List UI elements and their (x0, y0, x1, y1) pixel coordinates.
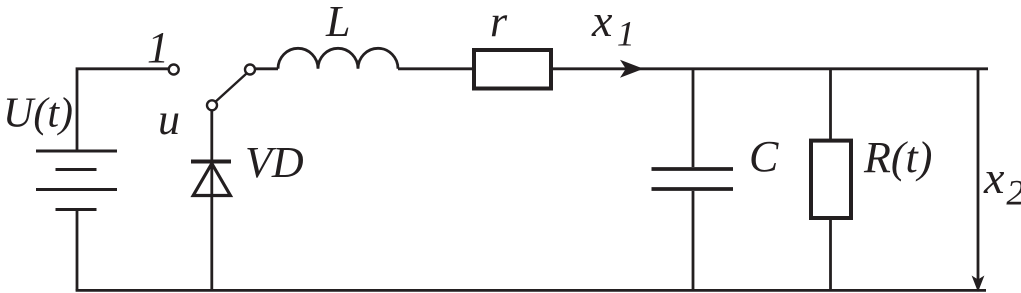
svg-text:r: r (490, 0, 508, 46)
wire battery bottom to bottom rail (76, 210, 79, 291)
svg-text:1: 1 (147, 23, 169, 72)
diode VD (191, 162, 231, 196)
battery plate 1 (long, positive) (36, 150, 117, 153)
switch terminal 1 (open circle) (169, 65, 179, 75)
battery U(t) (36, 151, 117, 210)
wire x2 vertical measurement line (977, 69, 980, 280)
svg-text:u: u (158, 95, 180, 144)
capacitor C (652, 169, 734, 189)
arrowhead x2 (downward) (972, 276, 985, 293)
wire resistor r to top-right corner (553, 67, 988, 70)
capacitor C bottom plate (652, 187, 734, 191)
switch pole circle (207, 100, 217, 110)
battery plate 4 (short, negative) (56, 208, 97, 211)
wire R(t) branch lower (829, 218, 832, 290)
svg-text:L: L (325, 0, 350, 46)
switch lever (216, 74, 247, 102)
arrowhead x1 current arrow (620, 60, 644, 78)
svg-text:C: C (749, 132, 779, 181)
resistor R(t) (811, 141, 851, 218)
battery plate 3 (long, positive) (36, 188, 117, 191)
inductor L (278, 48, 398, 69)
diode VD anode triangle (193, 164, 230, 196)
capacitor C top plate (652, 167, 734, 171)
svg-text:U(t): U(t) (3, 91, 73, 137)
wire top-left from battery to terminal 1 (77, 69, 168, 151)
battery plate 2 (short, negative) (56, 168, 97, 171)
switch throw circle (245, 65, 255, 75)
wire inductor to resistor r (398, 67, 472, 70)
wire R(t) branch upper (829, 69, 832, 140)
resistor r (474, 50, 551, 89)
svg-text:R(t): R(t) (863, 133, 932, 182)
wire bottom rail (76, 289, 986, 292)
wire switch pole down through diode to bottom rail (210, 111, 213, 291)
wire switch terminal to inductor (255, 67, 278, 70)
wire capacitor branch upper (692, 69, 695, 167)
svg-text:VD: VD (245, 138, 304, 187)
wire capacitor branch lower (692, 191, 695, 290)
diode VD cathode bar (191, 160, 231, 164)
